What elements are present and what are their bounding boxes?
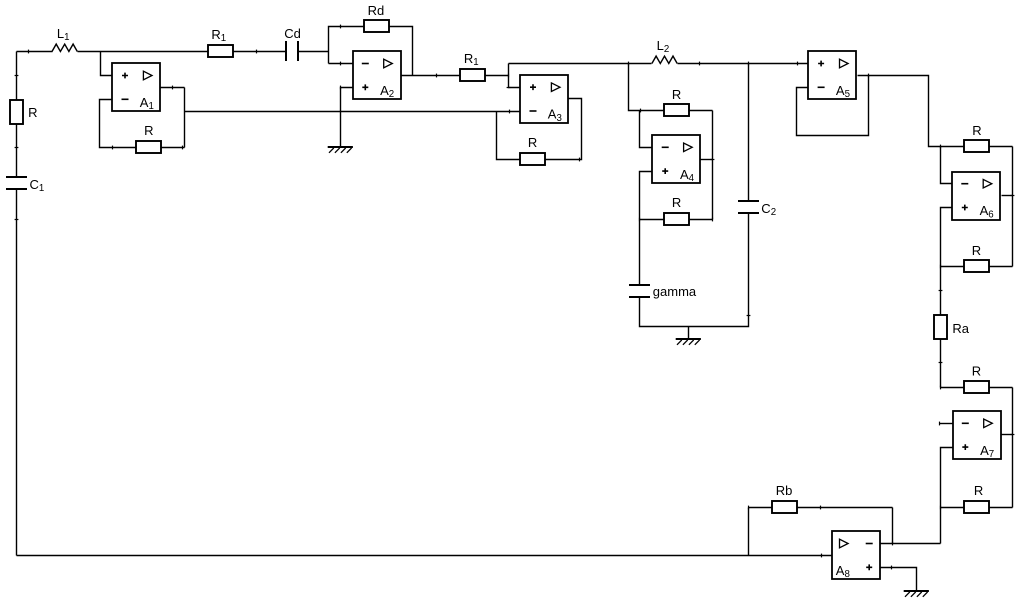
wire: A7 + input rail down to A8 - net bbox=[941, 448, 953, 544]
junction at C2 branch on L2 net bbox=[748, 62, 750, 66]
junction on Rb row left bbox=[748, 506, 750, 510]
capacitor C1 bbox=[6, 176, 27, 178]
junction on A8 output row bbox=[821, 554, 823, 558]
junction on A3 - input net bbox=[509, 110, 511, 114]
wire: left vertical rail upper part (through R) bbox=[16, 52, 18, 178]
ground below A2 + input bbox=[328, 146, 353, 148]
op-amp A3 bbox=[520, 75, 568, 124]
resistor R (A4 top) bbox=[664, 104, 689, 116]
resistor R (A7 top) bbox=[964, 381, 989, 393]
junction on A1 feedback row right bbox=[182, 146, 184, 150]
ground below A4 net bbox=[676, 338, 701, 340]
resistor Rb bbox=[772, 501, 797, 513]
resistor Ra bbox=[934, 315, 947, 339]
wire: Rd feedback loop around A2 bbox=[329, 27, 413, 76]
junction at A4 branch on L2 net bbox=[628, 62, 630, 66]
wire: input net top-left horizontal segment bbox=[17, 51, 53, 53]
svg-text:Cd: Cd bbox=[284, 26, 301, 41]
wire: A2 + input to ground drop bbox=[341, 88, 353, 148]
junction on C2 lower wire bbox=[747, 315, 751, 317]
svg-text:R: R bbox=[672, 195, 681, 210]
capacitor Cd bbox=[285, 41, 287, 61]
junction above Ra bbox=[939, 290, 943, 292]
op-amp A2 bbox=[353, 51, 401, 100]
junction on A4 bottom row left bbox=[639, 218, 641, 222]
wire: A5 output to A6 block bbox=[858, 76, 1013, 147]
junction on A2 - input row bbox=[340, 62, 342, 66]
svg-text:Rd: Rd bbox=[368, 3, 385, 18]
wire: A5 - feedback loop bbox=[797, 76, 869, 136]
wire: branch from top net down to A1 + input bbox=[101, 52, 113, 76]
op-amp A1 bbox=[112, 63, 160, 112]
junction on A4 bottom row right bbox=[712, 218, 714, 222]
capacitor gamma bbox=[629, 284, 650, 286]
resistor R (A7 bottom) bbox=[964, 501, 989, 513]
wire: A4 output stub bbox=[701, 159, 713, 161]
junction on A6 top row bbox=[940, 145, 942, 149]
wire: A8 - input row bbox=[881, 543, 941, 545]
junction at A7 output bbox=[1011, 434, 1015, 436]
capacitor C2 bbox=[738, 200, 759, 202]
svg-text:R: R bbox=[972, 243, 981, 258]
wire: A4 block top branch from L2 net bbox=[629, 64, 713, 111]
wire: A1 output vertical to feedback bbox=[184, 88, 186, 148]
svg-text:Rb: Rb bbox=[776, 483, 793, 498]
resistor R (left rail) bbox=[10, 100, 23, 124]
wire: A4 bottom feedback row bbox=[640, 219, 713, 221]
junction on A2 output row bbox=[436, 74, 438, 78]
ground at A8 + input bbox=[904, 590, 929, 592]
wire: bottom return net from left rail to A8 output bbox=[17, 555, 833, 557]
junction on left rail above R bbox=[15, 75, 19, 77]
junction below Ra bbox=[939, 362, 943, 364]
wire: A6 - input branch bbox=[941, 147, 953, 184]
resistor R (A4 bottom) bbox=[664, 213, 689, 225]
wire: A8 + input to ground bbox=[881, 568, 917, 592]
wire: net from A3 node to L2 bbox=[509, 63, 652, 65]
junction on left rail below C1 bbox=[15, 219, 19, 221]
svg-text:Ra: Ra bbox=[952, 321, 969, 336]
svg-text:R: R bbox=[528, 135, 537, 150]
wire: A7 bottom resistor row bbox=[941, 507, 1013, 509]
junction on A7 top row bbox=[940, 386, 942, 390]
junction on A1 feedback row left bbox=[112, 146, 114, 150]
wire: Rb left vertical to output net bbox=[748, 508, 750, 556]
wire: A1 - input to feedback row bbox=[100, 100, 185, 148]
junction right of L2 bbox=[699, 62, 701, 66]
junction before A5 + input bbox=[797, 62, 799, 66]
resistor R (A1 feedback) bbox=[136, 141, 161, 153]
junction at A4 output bbox=[711, 159, 715, 161]
wire: node to A2 - input bbox=[329, 63, 353, 65]
svg-text:gamma: gamma bbox=[653, 284, 697, 299]
junction on A4 top row bbox=[640, 109, 642, 113]
resistor R1 (input) bbox=[208, 45, 233, 57]
junction on A3 feedback row bbox=[579, 158, 581, 162]
op-amp A7 bbox=[953, 411, 1001, 460]
junction on A3 + input row bbox=[507, 87, 511, 89]
wire: top net segment Cd right plate to fork bbox=[299, 51, 329, 53]
op-amp A4 bbox=[652, 135, 700, 184]
wire: C2 top connection to L2 net bbox=[748, 64, 750, 202]
op-amp A8 bbox=[832, 531, 880, 580]
junction of R1 output at A3 + node bbox=[508, 74, 510, 78]
junction on top net left of L1 bbox=[28, 50, 30, 54]
wire: A7 right vertical bbox=[1012, 388, 1014, 508]
wire: ground stub below A4 net bbox=[688, 327, 690, 339]
wire: top net from L1 to node before A2 bbox=[78, 51, 287, 53]
junction at A5 output feedback tap bbox=[868, 74, 870, 78]
wire: A2 output to R1 and A3 node bbox=[401, 75, 509, 77]
wire: A4 right vertical bbox=[712, 111, 714, 220]
resistor R (A6 top) bbox=[964, 140, 989, 152]
wire: A7 - input stub bbox=[940, 423, 953, 425]
wire: left vertical rail lower part (below C1) bbox=[16, 190, 18, 556]
wire: A6 + input rail down through Ra to A7 bbox=[941, 208, 953, 388]
junction on A2 + input row bbox=[340, 86, 342, 90]
svg-text:R: R bbox=[28, 105, 37, 120]
junction on A6 bottom row bbox=[940, 265, 942, 269]
junction on left rail below R bbox=[15, 147, 19, 149]
wire: A6 output stub bbox=[1002, 195, 1013, 197]
svg-text:R: R bbox=[974, 483, 983, 498]
junction on Rd row bbox=[340, 25, 342, 29]
wire: A7 output stub bbox=[1001, 434, 1013, 436]
junction on top net right of R1 bbox=[256, 50, 258, 54]
wire: net from L2 to A5 + input bbox=[678, 63, 809, 65]
resistor R (A6 bottom) bbox=[964, 260, 989, 272]
resistor R (A3 feedback) bbox=[520, 153, 545, 165]
junction on A1 output stub bbox=[172, 86, 174, 90]
wire: Rb feedback row bbox=[749, 507, 893, 509]
wire: A4 + input down to gamma capacitor bbox=[640, 172, 653, 286]
wire: gamma bottom to ground row up to C2 bbox=[640, 214, 749, 327]
wire: A7 top resistor row bbox=[941, 387, 1013, 389]
wire: A6 bottom feedback row bbox=[941, 266, 1013, 268]
open end of A7 - input stub bbox=[939, 422, 941, 426]
svg-text:R: R bbox=[144, 123, 153, 138]
junction on A7 bottom row bbox=[940, 506, 942, 510]
op-amp A6 bbox=[952, 172, 1000, 220]
wire: A3 + input node vertical bbox=[509, 64, 521, 88]
wire: A1 output stub bbox=[161, 87, 185, 89]
resistor R1 (A2 output) bbox=[460, 69, 485, 81]
junction on A8 + input row bbox=[891, 566, 893, 570]
junction on Rb row right bbox=[820, 506, 822, 510]
inductor L1 bbox=[52, 44, 77, 51]
svg-text:R: R bbox=[972, 123, 981, 138]
svg-text:R: R bbox=[972, 363, 981, 378]
inductor L2 bbox=[652, 56, 677, 63]
junction at A6 output bbox=[1011, 195, 1015, 197]
svg-text:R: R bbox=[672, 87, 681, 102]
wire: A6 right vertical bbox=[1012, 147, 1014, 267]
wire: net from A1 output to A3 - input bbox=[185, 111, 521, 113]
junction on A8 - input row bbox=[892, 542, 894, 546]
wire: Rb right vertical to A8 - net bbox=[892, 508, 894, 544]
resistor Rd bbox=[364, 20, 389, 32]
wire: A3 feedback loop bbox=[497, 99, 582, 160]
op-amp A5 bbox=[808, 51, 856, 100]
wire: A4 - input branch bbox=[640, 111, 653, 148]
